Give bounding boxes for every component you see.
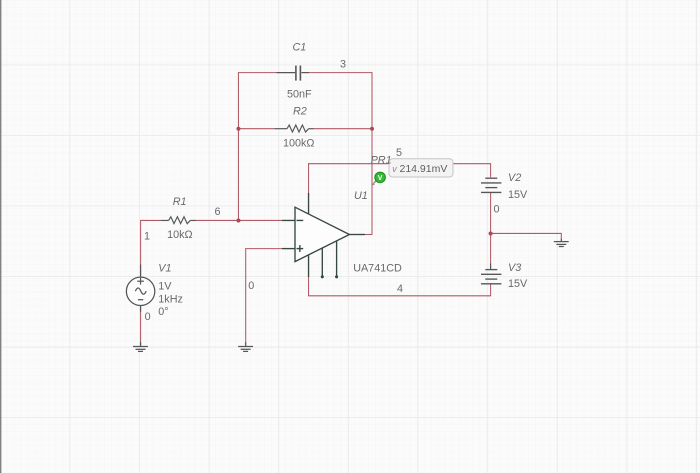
svg-text:V3: V3 [508, 262, 521, 274]
resistor R2 [274, 125, 313, 132]
plus sign [297, 248, 304, 250]
svg-text:V1: V1 [158, 263, 171, 275]
capacitor C1 [277, 66, 310, 81]
svg-text:1kHz: 1kHz [158, 293, 183, 305]
wire: op-amp V+ pin vertical (net 5) [308, 164, 310, 193]
op-amp U1 [282, 193, 365, 278]
svg-text:0°: 0° [158, 306, 168, 318]
pin 5 (offset null) [336, 241, 338, 277]
svg-text:R2: R2 [293, 106, 307, 118]
svg-text:15V: 15V [508, 278, 528, 290]
wire: V2 bottom to junction (net 0) [490, 193, 492, 234]
node 0: V2/V3 junction [489, 231, 493, 235]
svg-text:PR1: PR1 [371, 155, 392, 167]
wire: supply top horizontal to V2 (net 5) [308, 163, 491, 165]
wire: V3 top lead [490, 233, 492, 263]
output lead [349, 234, 365, 236]
source V1 [126, 265, 154, 312]
wire: R2 row left [238, 128, 274, 130]
svg-text:0: 0 [494, 204, 500, 216]
wire: plus input rail to ground [245, 248, 247, 342]
wire: R2 row right [314, 128, 373, 130]
svg-text:v: v [392, 164, 397, 174]
svg-text:0: 0 [145, 311, 151, 323]
minus input lead [282, 219, 295, 221]
wire: V2 top lead [490, 163, 492, 177]
svg-text:1V: 1V [158, 281, 172, 293]
svg-text:5: 5 [396, 147, 402, 159]
svg-text:4: 4 [397, 283, 403, 295]
svg-text:100kΩ: 100kΩ [283, 138, 314, 150]
svg-text:V2: V2 [508, 172, 521, 184]
wire: junction to right ground [491, 232, 562, 234]
ground (plus input) [238, 342, 253, 351]
node 6: input junction [236, 218, 240, 222]
wire: bottom supply horizontal (net 4) [309, 295, 492, 297]
resistor R1 [161, 217, 196, 224]
svg-text:U1: U1 [354, 190, 368, 202]
svg-text:V: V [378, 175, 383, 182]
svg-text:6: 6 [215, 206, 221, 218]
svg-text:10kΩ: 10kΩ [167, 229, 192, 241]
wire: plus input horizontal (net 0) [246, 248, 282, 250]
wire: top feedback (net 3) right of C1 [309, 72, 372, 74]
ground (V1) [133, 342, 148, 351]
pin 7 (V+) [308, 193, 310, 214]
probe readout box [389, 159, 453, 177]
node: R2 row right junction [370, 127, 374, 131]
wire: R1 to op-amp minus (net 6) [196, 219, 282, 221]
probe PR1 arrow [373, 181, 377, 185]
wire: V1 top vertical [140, 220, 142, 265]
svg-text:1: 1 [144, 231, 150, 243]
battery V3 [481, 264, 501, 284]
plus input lead [282, 248, 295, 250]
svg-text:R1: R1 [173, 196, 187, 208]
wire: top feedback (net 3) left of C1 [238, 72, 276, 74]
wire: left feedback rail [237, 72, 239, 221]
wire: op-amp V- pin vertical [308, 277, 310, 296]
pin 4 (V-) [308, 255, 310, 277]
svg-text:C1: C1 [293, 42, 307, 54]
svg-text:0: 0 [248, 280, 254, 292]
minus sign [297, 219, 304, 221]
wire: V3 bottom lead (net 4) [490, 284, 492, 296]
probe PR1 circle [375, 172, 386, 183]
wire: right ground drop [560, 233, 562, 239]
svg-text:15V: 15V [508, 189, 528, 201]
battery V2 [481, 178, 501, 192]
pin 1 (offset null) [321, 248, 323, 277]
wire: V1 to R1 (net 1) [141, 219, 161, 221]
wire: op-amp output to rail [365, 234, 373, 236]
ground (right / net 0) [554, 239, 569, 247]
wire: V1 bottom to ground [140, 312, 142, 343]
svg-text:50nF: 50nF [287, 88, 312, 100]
node: R2 row left junction [236, 127, 240, 131]
svg-text:3: 3 [340, 59, 346, 71]
wire: right feedback rail (net 3 / output) [371, 72, 373, 234]
svg-text:UA741CD: UA741CD [353, 263, 402, 275]
svg-text:214.91mV: 214.91mV [400, 163, 448, 175]
